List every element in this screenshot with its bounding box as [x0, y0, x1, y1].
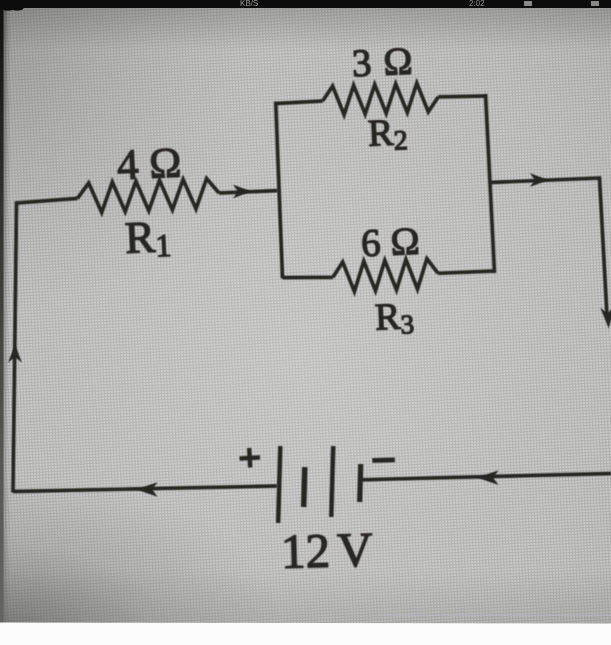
svg-text:12 V: 12 V — [280, 522, 373, 579]
current arrow bottom right — [477, 470, 499, 485]
svg-text:4 Ω: 4 Ω — [116, 140, 182, 190]
wire top branch right — [438, 94, 485, 99]
status bar — [0, 0, 611, 8]
battery plate short 2 — [357, 464, 363, 502]
wire bottom branch right — [438, 271, 495, 273]
faint page line bottom right — [380, 615, 611, 617]
battery plus sign — [239, 447, 260, 468]
svg-text:2:02: 2:02 — [469, 0, 485, 8]
resistor R1 — [78, 179, 220, 213]
battery plate long + — [276, 446, 283, 523]
battery minus sign — [372, 457, 395, 462]
wire bottom branch left — [283, 276, 333, 280]
wire parallel-box right vertical — [486, 94, 495, 273]
current arrow up left side — [8, 345, 22, 363]
svg-text:KB/S: KB/S — [240, 0, 258, 8]
svg-text:6Ω: 6Ω — [360, 220, 420, 266]
wire parallel-box left vertical — [276, 102, 283, 279]
wire output to right corner — [490, 178, 607, 315]
wire battery to right edge — [361, 474, 611, 480]
wire left vertical with top-left corner — [13, 198, 78, 492]
current arrow output — [530, 173, 549, 187]
battery plate short — [301, 467, 308, 507]
current arrow into node — [233, 185, 252, 199]
current arrow down right side — [600, 307, 611, 329]
wire bottom left to battery — [13, 486, 277, 492]
resistor R3 — [333, 259, 438, 292]
wire R1 to node — [219, 191, 277, 193]
current arrow bottom left — [136, 482, 158, 497]
battery plate long 2 — [329, 446, 335, 517]
wire top branch left — [276, 101, 323, 104]
white page strip at bottom — [0, 623, 611, 645]
resistor R2 — [323, 83, 439, 115]
